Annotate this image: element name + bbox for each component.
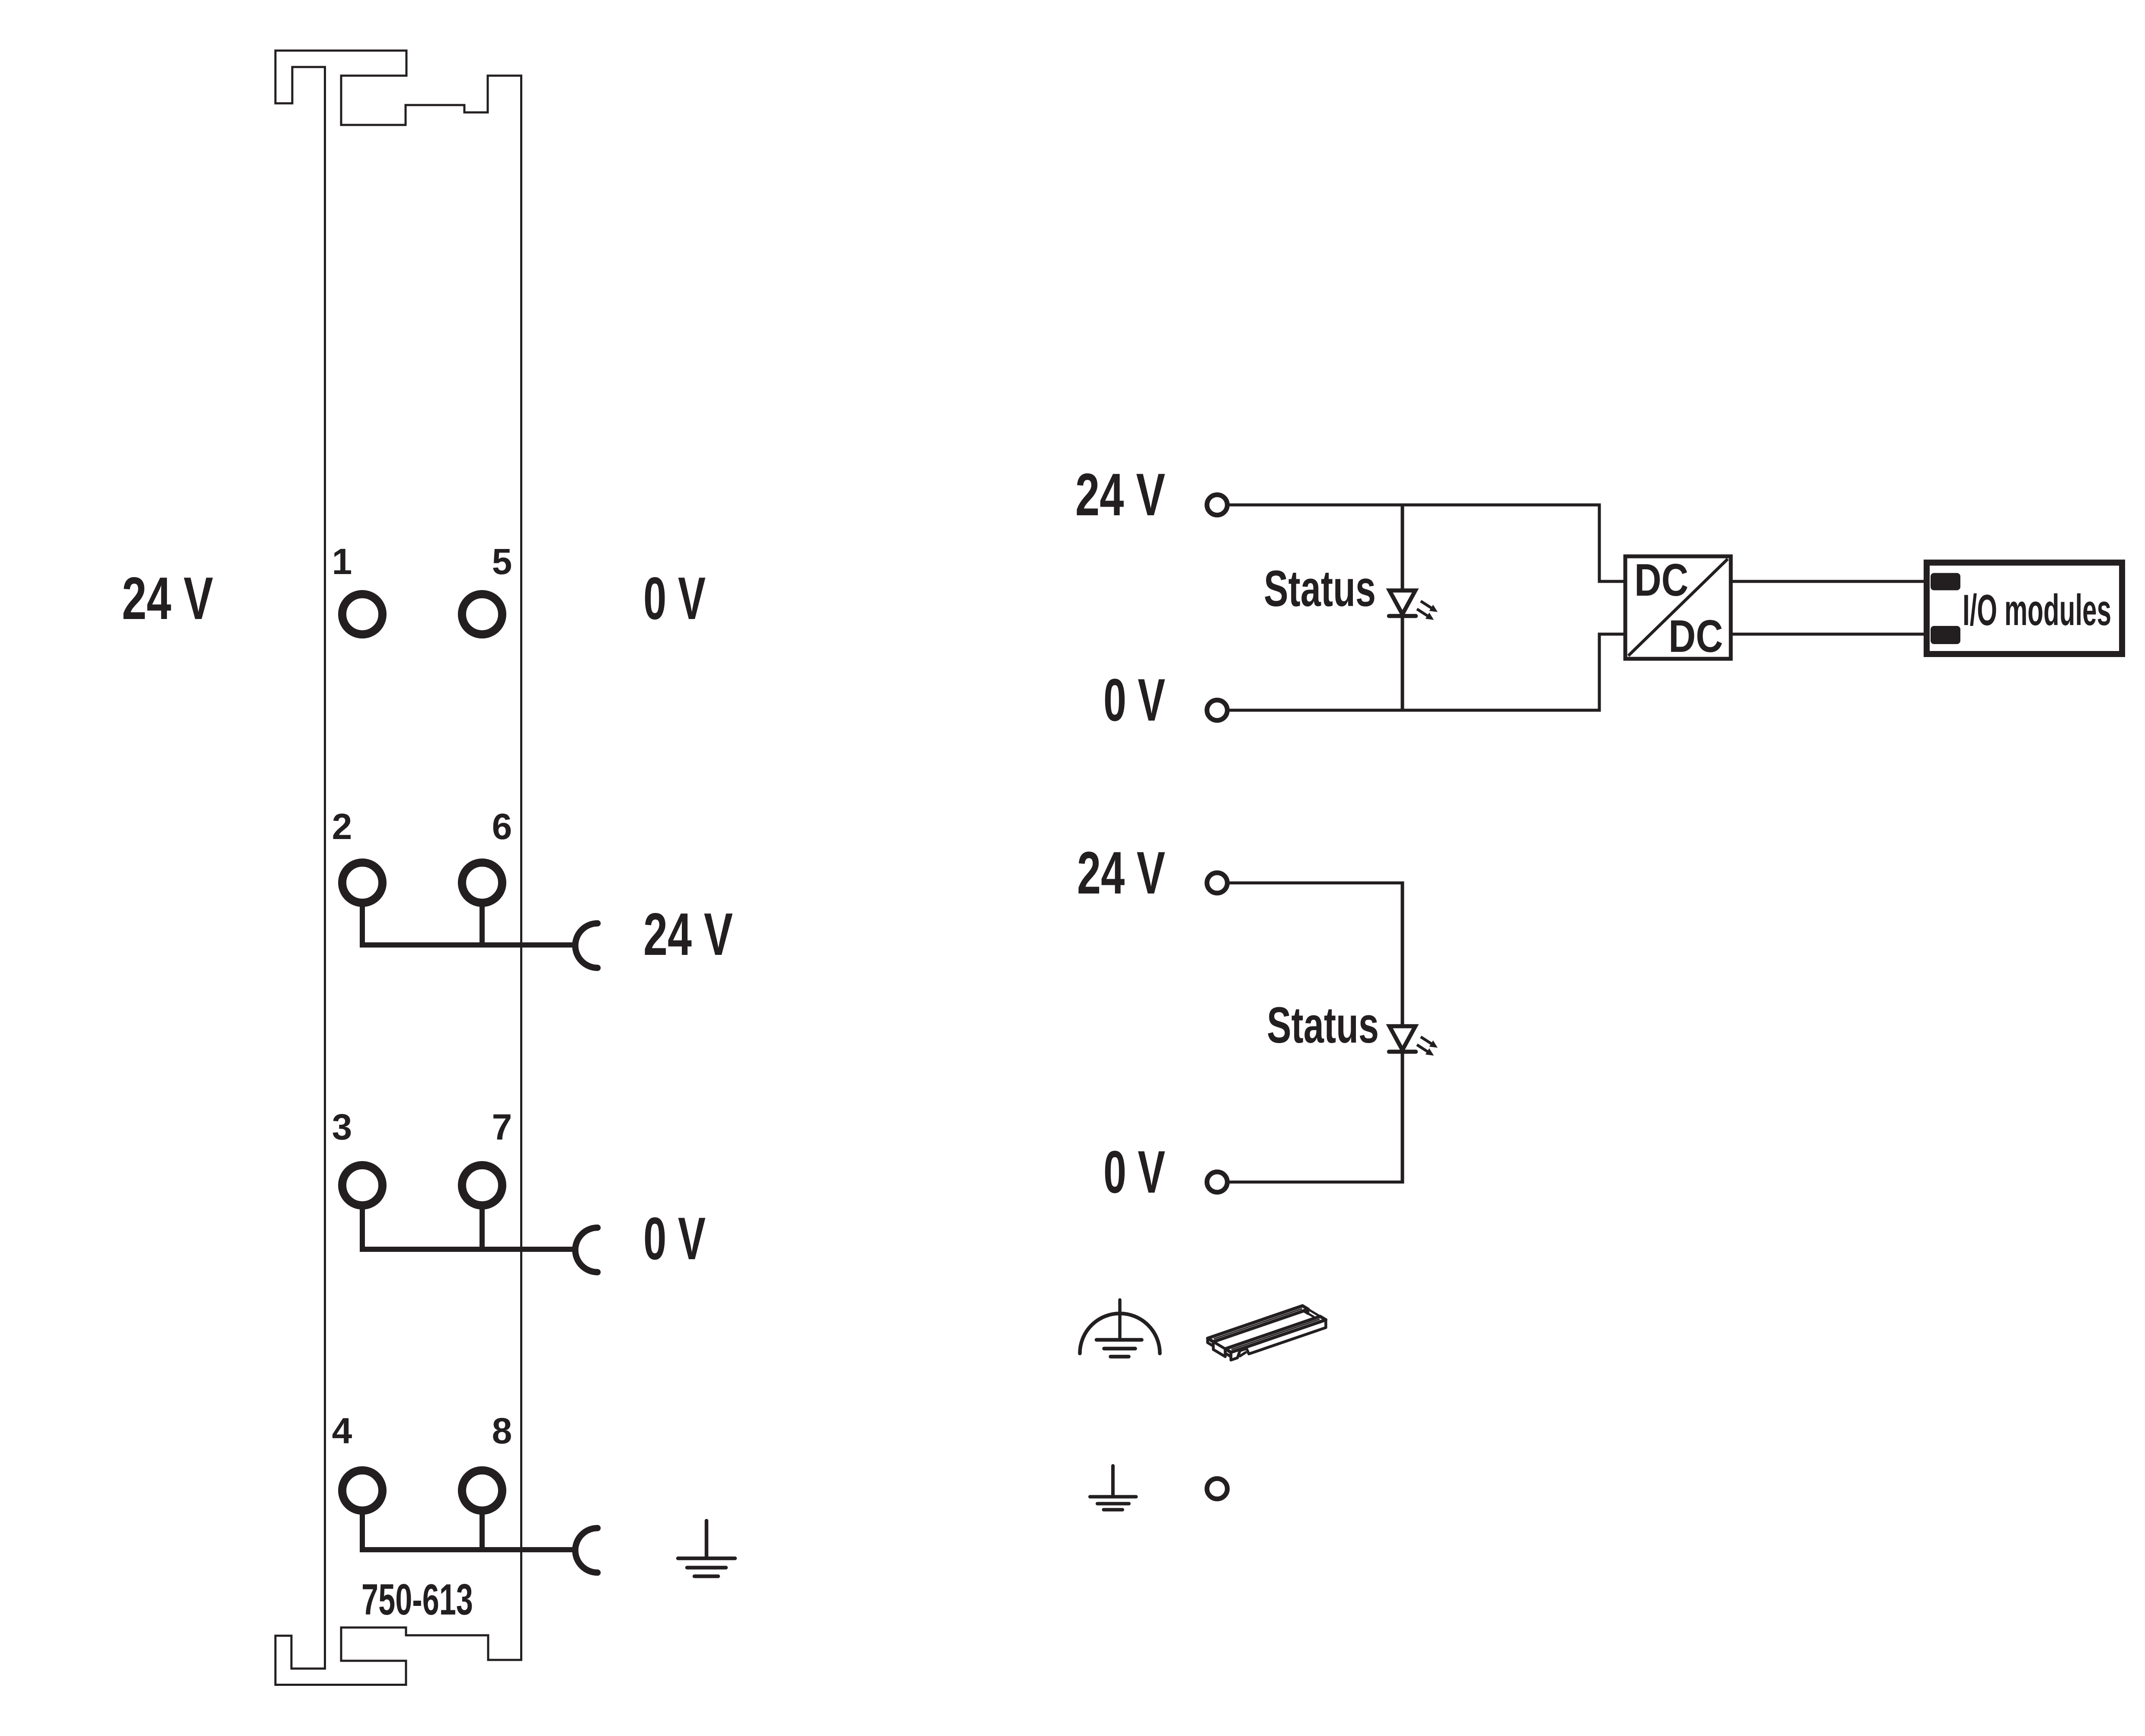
svg-text:8: 8 xyxy=(492,1410,512,1451)
svg-text:0 V: 0 V xyxy=(643,1205,706,1272)
wire earth bus row4 xyxy=(360,1547,573,1552)
I/O modules box xyxy=(1927,563,2122,654)
functional earth symbol xyxy=(1080,1300,1160,1356)
wire pin7 stub xyxy=(480,1185,485,1249)
svg-text:24 V: 24 V xyxy=(643,901,733,968)
svg-text:DC: DC xyxy=(1669,611,1723,662)
svg-text:DC: DC xyxy=(1634,555,1688,606)
svg-text:7: 7 xyxy=(492,1107,512,1147)
svg-text:24 V: 24 V xyxy=(1075,461,1165,528)
svg-text:Status: Status xyxy=(1264,560,1376,617)
svg-text:6: 6 xyxy=(492,806,512,847)
LED D1 xyxy=(1389,590,1438,620)
wire down to DCDC input xyxy=(1599,504,1624,582)
wire DCDC to IO bottom xyxy=(1732,633,1928,636)
clamp terminal 4 xyxy=(342,1471,383,1511)
clamp terminal 1 xyxy=(342,594,383,635)
svg-text:4: 4 xyxy=(332,1410,352,1451)
LED D2 xyxy=(1389,1026,1438,1056)
svg-text:I/O modules: I/O modules xyxy=(1963,586,2111,635)
module 750-613 outline xyxy=(275,51,521,1685)
svg-text:3: 3 xyxy=(332,1107,352,1147)
wire pin3 stub xyxy=(360,1185,365,1249)
svg-text:5: 5 xyxy=(492,541,512,582)
wire up to DCDC input low xyxy=(1599,634,1624,712)
svg-text:0 V: 0 V xyxy=(643,565,706,632)
clamp terminal 8 xyxy=(462,1471,502,1511)
terminal circle bottom xyxy=(1207,1479,1228,1499)
svg-text:750-613: 750-613 xyxy=(361,1576,473,1624)
terminal circle 24V lower xyxy=(1207,873,1228,893)
svg-text:24 V: 24 V xyxy=(122,565,213,632)
wire LED branch lower xyxy=(1401,883,1404,1182)
svg-text:24 V: 24 V xyxy=(1077,839,1165,906)
clamp terminal 3 xyxy=(342,1165,383,1206)
DIN rail icon xyxy=(1208,1306,1326,1360)
wire DCDC to IO top xyxy=(1732,580,1928,583)
wire 0V upper xyxy=(1229,709,1601,712)
wire 24V lower xyxy=(1229,881,1404,884)
wire 24V upper xyxy=(1229,504,1601,507)
clamp spring contact row3 xyxy=(575,1228,598,1272)
clamp spring contact row2 xyxy=(575,923,598,968)
wire pin8 stub xyxy=(480,1490,485,1550)
terminal circle 0V upper xyxy=(1207,700,1228,721)
wire 0V bus row3 xyxy=(360,1247,573,1252)
ground symbol row4 xyxy=(678,1521,735,1576)
wire LED branch upper xyxy=(1401,505,1404,710)
svg-text:1: 1 xyxy=(332,541,352,582)
wire pin6 stub xyxy=(480,883,485,945)
clamp spring contact row4 xyxy=(575,1528,598,1573)
svg-text:2: 2 xyxy=(332,806,352,847)
clamp terminal 6 xyxy=(462,863,502,903)
ground symbol bottom xyxy=(1090,1466,1136,1510)
clamp terminal 5 xyxy=(462,594,502,635)
terminal circle 0V lower xyxy=(1207,1172,1228,1192)
wire 24V bus row2 xyxy=(360,942,573,948)
wire 0V lower xyxy=(1229,1181,1404,1184)
svg-text:0 V: 0 V xyxy=(1103,1139,1165,1206)
DC/DC converter U1 xyxy=(1625,555,1731,662)
wire pin4 stub xyxy=(360,1490,365,1550)
svg-text:Status: Status xyxy=(1267,997,1379,1054)
clamp terminal 7 xyxy=(462,1165,502,1206)
wire pin2 stub xyxy=(360,883,365,945)
terminal circle 24V upper xyxy=(1207,495,1228,515)
svg-text:0 V: 0 V xyxy=(1103,667,1165,734)
clamp terminal 2 xyxy=(342,863,383,903)
